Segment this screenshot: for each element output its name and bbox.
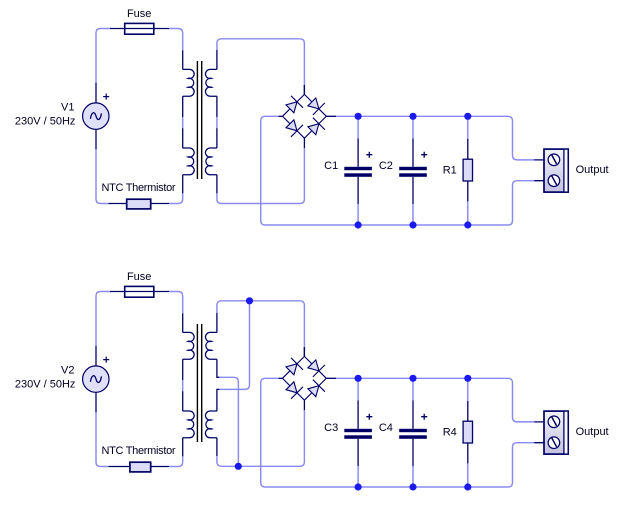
svg-text:NTC Thermistor: NTC Thermistor <box>101 182 175 194</box>
svg-text:C1: C1 <box>324 160 338 172</box>
svg-text:Fuse: Fuse <box>127 271 151 283</box>
svg-text:C2: C2 <box>379 160 393 172</box>
svg-text:C3: C3 <box>324 422 338 434</box>
svg-text:230V / 50Hz: 230V / 50Hz <box>15 379 76 391</box>
svg-text:Output: Output <box>576 426 609 438</box>
svg-text:230V / 50Hz: 230V / 50Hz <box>15 116 76 128</box>
svg-text:Fuse: Fuse <box>127 8 151 20</box>
svg-text:R4: R4 <box>443 427 457 439</box>
svg-text:V1: V1 <box>61 102 74 114</box>
svg-text:C4: C4 <box>379 422 393 434</box>
svg-text:R1: R1 <box>443 165 457 177</box>
svg-text:V2: V2 <box>61 365 74 377</box>
svg-text:NTC Thermistor: NTC Thermistor <box>101 445 175 457</box>
svg-text:Output: Output <box>576 164 609 176</box>
